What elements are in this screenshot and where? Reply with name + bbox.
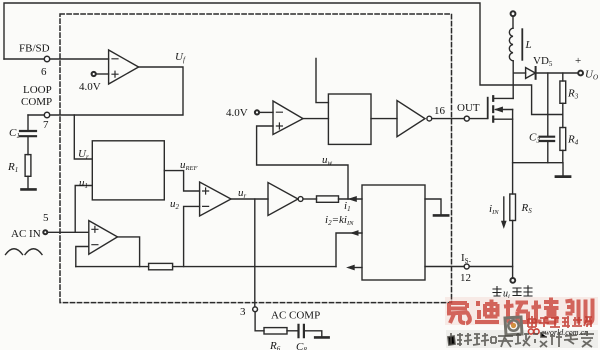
comparator U2: [200, 182, 231, 216]
node 4.0V reference dot to PWM comparator: [255, 110, 259, 114]
capacitor C1: [27, 115, 29, 130]
wire i2 branch from rail into synthesizer: [336, 233, 362, 267]
wire source: [494, 118, 512, 120]
wire R3 top branch: [562, 73, 564, 81]
wire current amp output to rail: [118, 237, 140, 267]
wire AC IN to current amp: [47, 231, 88, 233]
label jie ui fuji text: [493, 287, 501, 297]
ground below R1: [22, 188, 36, 191]
op-amp U1 voltage error amplifier: [109, 50, 139, 84]
node 4.0V reference dot to error amp: [92, 72, 96, 76]
wire node to pin 3: [254, 199, 256, 307]
wire clock stub into latch: [316, 59, 328, 103]
pin 12 Is-: [464, 264, 469, 269]
wire pin 16 to OUT: [432, 118, 465, 120]
wire u_w from PWM comparator noninverting input down to i1 node: [257, 126, 348, 199]
wire top feedback rail from FB/SD to output divider: [4, 3, 563, 115]
pin 5 AC IN: [43, 230, 47, 234]
capacitor C8: [299, 325, 304, 337]
capacitor C3 branch: [547, 73, 549, 136]
wire feedback of current amp: [76, 247, 89, 267]
resistor on rail: [149, 263, 173, 269]
wire FB/SD pin to error amp inverting input: [4, 58, 109, 60]
resistor R3: [560, 81, 566, 103]
resistor on i1 branch: [317, 196, 339, 202]
diode VD5: [513, 72, 525, 74]
comparator U4 PWM: [273, 101, 303, 135]
watermark text dianzi gongcheng shijie: [528, 316, 592, 328]
wire u1 from AC IN node into multiplier: [75, 186, 92, 233]
sine wave symbol: [6, 249, 43, 255]
watermark char tuo: [504, 300, 528, 323]
inductor L: [509, 28, 513, 61]
arrow i1 into node: [349, 196, 357, 201]
wire PWM comparator to latch: [303, 118, 328, 120]
watermark shepin row dark: [448, 331, 594, 347]
wire synthesizer ground: [425, 199, 441, 214]
resistor R4: [560, 128, 566, 151]
pin 16 OUT terminal: [464, 116, 469, 121]
wire source vertical through Rs: [512, 110, 514, 195]
wire drain: [494, 97, 513, 99]
wire body with arrow: [496, 109, 513, 111]
watermark char di: [475, 300, 499, 323]
latch logic block: [328, 94, 371, 144]
wire u_r comparator output: [231, 198, 268, 200]
svg-text:eworld.com.cn: eworld.com.cn: [541, 328, 588, 337]
wire drain vertical to inductor and diode node: [512, 61, 514, 99]
resistor R1: [25, 155, 31, 177]
wire error amp output U_f down to LOOP COMP line: [28, 67, 183, 115]
current synthesizer block: [362, 185, 425, 280]
arrow i2: [351, 231, 358, 236]
watermark logo d square: [505, 317, 522, 335]
arrow iIN current annotation: [503, 197, 505, 222]
wire Is- from synthesizer to Rs bottom: [425, 266, 513, 268]
watermark char pei: [532, 298, 559, 324]
wire inverter to resistor: [303, 198, 317, 200]
watermark eeworld logo circles: [528, 329, 533, 334]
inverter U5 output driver: [397, 101, 425, 137]
terminal output Uo: [578, 71, 583, 76]
wire bottom stub with arrow out of synthesizer: [354, 267, 362, 269]
ground AC COMP: [315, 336, 328, 339]
watermark char xun: [566, 299, 593, 324]
wire latch to output inverter: [371, 118, 397, 120]
pin 6 FB/SD: [44, 56, 49, 61]
ground synthesizer: [434, 214, 448, 217]
watermark char yi: [447, 303, 470, 324]
watermark group: [493, 286, 532, 300]
ground output section: [556, 175, 570, 178]
wire OUT to MOSFET gate: [469, 118, 487, 120]
wire pin3 to R6: [255, 312, 264, 331]
multiplier block: [92, 141, 164, 200]
transistor Q1 MOSFET gate bar: [487, 98, 489, 119]
wire U_r tap from LOOP COMP into multiplier: [74, 115, 92, 159]
op-amp U6 current amplifier: [89, 221, 118, 255]
wire ground rail of output section: [513, 163, 563, 176]
terminal input top: [511, 11, 516, 16]
wire current amp rail: [76, 266, 336, 268]
wire resistor to current synthesizer node i1: [339, 198, 363, 200]
inverter U3: [268, 183, 298, 216]
IC dashed boundary box: [60, 14, 452, 303]
terminal to ui negative: [510, 278, 515, 283]
resistor Rs: [510, 194, 516, 221]
pin 7 LOOP COMP: [44, 112, 49, 117]
pin 3 AC COMP: [253, 307, 258, 312]
wire u2 from current amp rail to comparator inverting input: [184, 206, 200, 266]
wire u_REF multiplier output to comparator: [164, 171, 199, 191]
watermark haze: [445, 297, 598, 325]
resistor R6: [264, 328, 287, 334]
transistor Q1 channel stubs: [492, 96, 494, 121]
